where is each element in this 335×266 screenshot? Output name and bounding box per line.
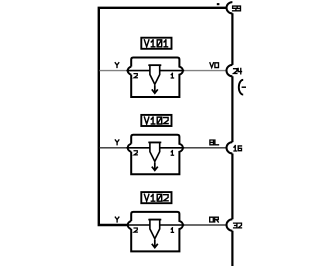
- wire label row 1: [210, 63, 219, 68]
- wire through injector row 1: [126, 70, 184, 72]
- injector flow arrow row 2: [152, 162, 158, 170]
- connector pin arc row 1: [227, 65, 233, 76]
- connector pin number row 2: [234, 146, 242, 151]
- injector V102 label box row 2: [141, 115, 171, 126]
- injector V102 label box row 3: [141, 192, 171, 203]
- injector nozzle row 3: [148, 220, 161, 239]
- wire color Y left segment row 1: [100, 70, 129, 72]
- wire label Y row 3: [115, 217, 119, 222]
- connector pin 59 arc: [227, 2, 233, 13]
- connector pin number row 3: [234, 223, 242, 228]
- pin 1 label row 3: [171, 228, 173, 233]
- wire right segment row 2: [183, 147, 227, 149]
- wire through injector row 3: [126, 224, 184, 226]
- injector nozzle row 1: [148, 65, 161, 84]
- terminal ear pin 2 row 3: [128, 221, 131, 229]
- injector V101 label box row 1: [141, 38, 171, 49]
- pin 2 label row 1: [134, 74, 137, 78]
- wire label row 3: [210, 217, 219, 222]
- wire right segment row 1: [183, 70, 227, 72]
- connector pin number row 1: [234, 68, 242, 73]
- injector V102 body outline row 3: [131, 212, 183, 252]
- pin 1 label row 2: [171, 151, 173, 156]
- wire right segment row 3: [183, 224, 227, 226]
- injector V101 body outline row 1: [131, 58, 183, 98]
- injector V102 body outline row 2: [131, 135, 183, 175]
- connector pin arc row 2: [227, 142, 233, 153]
- wire main feed bus: [99, 8, 227, 225]
- injector nozzle row 2: [148, 142, 161, 161]
- splice dot: [217, 3, 220, 5]
- wire through injector row 2: [126, 147, 184, 149]
- terminal ear pin 2 row 2: [128, 144, 131, 152]
- pin 1 label row 1: [171, 73, 173, 78]
- wire label Y row 2: [115, 140, 119, 145]
- injector V102 label text row 2: [144, 117, 168, 124]
- wire label row 2: [210, 140, 219, 145]
- wire label Y row 1: [115, 63, 119, 68]
- injector V101 label text row 1: [144, 40, 167, 47]
- pin 2 label row 3: [134, 228, 137, 232]
- terminal ear pin 2 row 1: [128, 67, 131, 75]
- injector flow arrow row 1: [152, 85, 158, 93]
- pin 2 label row 2: [134, 151, 137, 155]
- connector pin arc row 3: [227, 219, 233, 230]
- inline connector half symbol: [239, 80, 246, 95]
- connector pin number 59: [233, 6, 241, 11]
- injector flow arrow row 3: [152, 240, 158, 248]
- injector V102 label text row 3: [144, 194, 168, 201]
- wire right connector bus: [231, 13, 233, 266]
- wire color Y left segment row 2: [100, 147, 129, 149]
